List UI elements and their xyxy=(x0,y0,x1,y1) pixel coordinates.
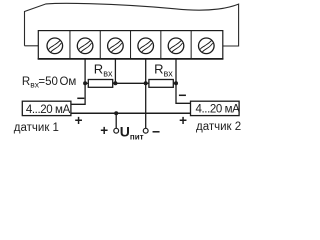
svg-text:+: + xyxy=(179,113,187,128)
resistor R1 lead left xyxy=(85,82,88,84)
wire from terminal 5 down to sensor 2 minus xyxy=(176,59,191,104)
svg-text:Rвх: Rвх xyxy=(154,62,173,79)
svg-text:+: + xyxy=(100,123,108,138)
cell divider 2 xyxy=(99,31,101,59)
wire from terminal 4 down to Upit minus xyxy=(145,59,147,129)
svg-text:−: − xyxy=(77,90,85,106)
junction dot terminal2/R1 xyxy=(83,81,87,85)
screw terminal 4 xyxy=(138,38,154,54)
Upit minus terminal circle xyxy=(143,128,148,133)
junction dot terminal5/R2 xyxy=(174,81,178,85)
resistor R2 lead right xyxy=(173,82,176,84)
stub from plus wire down to Upit plus xyxy=(115,113,117,128)
Upit plus terminal circle xyxy=(114,128,119,133)
sensor 2 box xyxy=(191,101,240,115)
svg-text:датчик 2: датчик 2 xyxy=(196,121,241,133)
plus supply wire from sensor1 to sensor2 xyxy=(71,112,191,114)
cell divider 1 xyxy=(69,31,71,59)
screw terminal 6 xyxy=(199,38,215,54)
svg-text:4...20 мА: 4...20 мА xyxy=(196,103,241,115)
svg-text:−: − xyxy=(178,87,186,103)
svg-text:Rвх=50Ом: Rвх=50Ом xyxy=(22,76,77,90)
junction dot on plus wire xyxy=(114,111,118,115)
device case outline (torn top edge) xyxy=(25,3,239,46)
terminal block body xyxy=(38,31,223,59)
common wire between terminal 3 and terminal 4 xyxy=(115,82,145,84)
screw terminal 2 xyxy=(77,38,93,54)
screw terminal 5 xyxy=(168,38,184,54)
svg-text:Rвх: Rвх xyxy=(94,62,113,79)
resistor R1 body xyxy=(88,80,112,88)
svg-text:+: + xyxy=(75,113,83,128)
wire from terminal 3 down to resistor R1 right junction xyxy=(114,59,116,84)
cell divider 4 xyxy=(160,31,162,59)
terminal block bottom edge (thicker) xyxy=(38,58,224,60)
cell divider 5 xyxy=(190,31,192,59)
sensor 1 box xyxy=(22,101,71,115)
cell divider 3 xyxy=(130,31,132,59)
svg-text:−: − xyxy=(152,124,160,140)
junction dot terminal3/R1 xyxy=(113,81,117,85)
junction dot terminal4/R2 xyxy=(144,81,148,85)
resistor R2 lead left xyxy=(146,82,149,84)
svg-text:датчик 1: датчик 1 xyxy=(14,122,59,134)
resistor R2 body xyxy=(149,80,173,88)
resistor R1 lead right xyxy=(113,82,116,84)
svg-text:4...20 мА: 4...20 мА xyxy=(26,104,71,116)
screw terminal 3 xyxy=(108,38,124,54)
svg-text:Uпит: Uпит xyxy=(120,124,144,142)
screw terminal 1 xyxy=(47,38,63,54)
wire from case to terminal block left xyxy=(25,45,39,47)
wire from terminal 2 down to sensor 1 minus xyxy=(71,59,85,105)
